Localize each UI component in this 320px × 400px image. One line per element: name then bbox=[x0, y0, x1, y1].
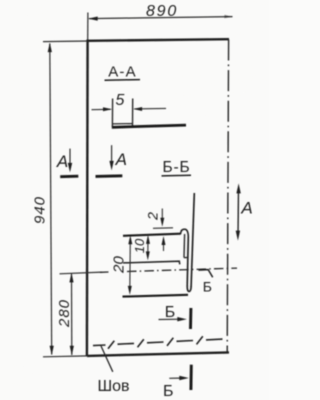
dimension 280: extension line at seam level bbox=[60, 272, 103, 274]
cut mark B (upper): right arrow bbox=[159, 318, 182, 320]
weld seam marks row: leader T bar bbox=[93, 344, 106, 347]
cut mark A (right): down arrow bbox=[111, 145, 113, 165]
B-B profile: top sheet line bbox=[123, 234, 181, 236]
weld seam marks: dash 1 bbox=[118, 342, 135, 345]
B-B profile: middle sheet line bbox=[123, 261, 180, 264]
left edge extension above (for 890 dim) bbox=[87, 13, 89, 41]
dimension 2: extension line bbox=[153, 227, 173, 230]
dimension 280: bottom arrowhead bbox=[70, 346, 74, 356]
plate right edge (dash-dot axis) bbox=[227, 40, 228, 353]
B-B profile: hem inner line bbox=[183, 234, 186, 258]
top edge extension line (left, for 940 dim) bbox=[43, 40, 88, 43]
weld seam marks: dash 3 bbox=[177, 340, 194, 343]
dimension 2: lower arrow pointing up bbox=[163, 240, 165, 251]
B-B profile: crown arc (2mm bulge) bbox=[181, 229, 189, 236]
B-B profile: hem inner foot bbox=[184, 256, 188, 258]
dimension 280: top arrowhead bbox=[69, 273, 73, 283]
dimension 890: left arrowhead bbox=[88, 17, 98, 21]
plate bottom edge bbox=[87, 352, 229, 356]
dimension 940: top arrowhead bbox=[48, 43, 52, 53]
cut mark B (lower): thick segment bbox=[189, 365, 192, 390]
weld seam marks: slash 4 bbox=[197, 336, 203, 344]
dimension 5: left tail with arrowhead pointing right bbox=[92, 108, 111, 110]
dimension 5: right tail with arrowhead pointing left bbox=[134, 107, 166, 110]
section A-A title underline bbox=[105, 79, 141, 82]
A-A profile: left vertical (fold side) bbox=[111, 99, 113, 127]
plate top edge bbox=[87, 39, 229, 41]
dimension 890: line bbox=[89, 17, 233, 19]
weld seam marks: dash 2 bbox=[147, 341, 164, 344]
dimension 2: upper arrow pointing down bbox=[161, 209, 163, 222]
B-B profile: bottom sheet line bbox=[123, 295, 189, 297]
dimension 10: line with both arrowheads bbox=[147, 239, 149, 256]
weld seam marks: slash 2 bbox=[138, 339, 144, 347]
cut mark A (right): thick segment bbox=[96, 174, 123, 177]
B-B centerline (dash-dot) bbox=[100, 271, 109, 273]
cut mark A (left): thick segment bbox=[60, 175, 78, 178]
cut mark B (upper): thick segment bbox=[189, 308, 192, 329]
dimension 940: line bbox=[50, 44, 52, 355]
dimension 890: right arrowhead bbox=[224, 15, 232, 18]
cut mark A (left): down arrow bbox=[69, 149, 71, 167]
B-B profile: main standing vertical bbox=[191, 193, 194, 287]
B-B profile: hem outer line with bottom U-turn bbox=[187, 237, 191, 292]
weld seam marks: dash 4 bbox=[206, 338, 223, 341]
cut mark B (lower): right arrow bbox=[169, 377, 183, 379]
view arrow A (right side, double headed) bbox=[237, 189, 240, 236]
section B-B title underline bbox=[162, 174, 192, 177]
dimension 280: line bbox=[71, 273, 73, 355]
weld leader line to Shov label bbox=[101, 346, 113, 372]
B-B cut tick near centerline bbox=[199, 270, 213, 278]
A-A profile: thick sheet line bbox=[112, 125, 186, 127]
dimension 20: line with both arrowheads bbox=[129, 239, 132, 292]
weld seam marks: slash 3 bbox=[167, 338, 173, 346]
A-A profile: channel bottom thin line bbox=[113, 123, 133, 125]
weld seam marks: slash 1 bbox=[108, 341, 114, 349]
A-A profile: right vertical (fold side) bbox=[132, 99, 134, 127]
dimension 940: bottom arrowhead bbox=[50, 346, 54, 356]
bottom edge extension line (left) bbox=[43, 355, 88, 358]
plate left edge bbox=[86, 40, 89, 357]
